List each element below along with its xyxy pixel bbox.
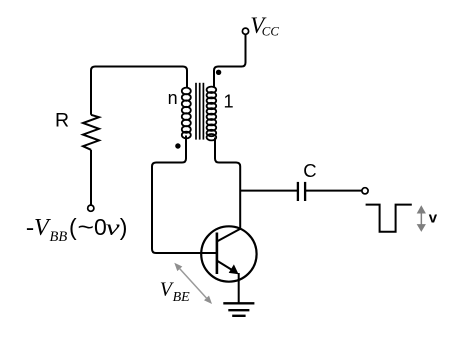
- svg-text:(: (: [69, 214, 77, 240]
- svg-text:n: n: [168, 88, 178, 108]
- svg-text:CC: CC: [262, 25, 280, 39]
- svg-text:v: v: [106, 215, 121, 240]
- svg-text:BB: BB: [50, 229, 68, 245]
- svg-text:-V: -V: [26, 215, 51, 241]
- svg-text:C: C: [303, 160, 316, 181]
- svg-text:v: v: [429, 210, 438, 227]
- svg-text:): ): [120, 214, 128, 240]
- svg-text:R: R: [55, 110, 69, 132]
- svg-text:BE: BE: [173, 290, 191, 305]
- svg-text:1: 1: [224, 92, 234, 112]
- svg-text:~: ~: [78, 214, 95, 240]
